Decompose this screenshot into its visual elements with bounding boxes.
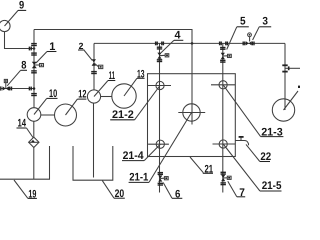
tank 20 xyxy=(73,146,113,180)
wire 11 to 13 xyxy=(101,96,112,98)
label 22 xyxy=(246,144,270,161)
node B junction xyxy=(33,87,36,90)
vessel 13 xyxy=(112,78,137,108)
label 12 xyxy=(77,98,86,100)
vessel 12 xyxy=(55,99,78,126)
flange pair xyxy=(220,60,225,62)
right riser pipe xyxy=(284,43,286,110)
wire from 9 to main riser xyxy=(5,32,34,49)
tee flanges at x159.5 xyxy=(156,42,164,46)
valve 4 xyxy=(157,53,168,59)
svg-text:11: 11 xyxy=(109,70,115,82)
svg-text:19: 19 xyxy=(28,188,36,200)
tee flanges at x222.8 xyxy=(220,42,228,46)
flange pair xyxy=(157,47,162,49)
pipe 11 down to tank 20 xyxy=(93,103,95,177)
label 1 xyxy=(36,52,56,64)
flange pair y71.8 xyxy=(31,71,37,73)
svg-text:21: 21 xyxy=(205,164,214,176)
svg-text:13: 13 xyxy=(137,69,145,81)
svg-text:21-3: 21-3 xyxy=(261,126,283,138)
svg-text:4: 4 xyxy=(175,30,182,42)
svg-text:3: 3 xyxy=(262,15,268,27)
flange pair on branch xyxy=(10,87,12,91)
pump 10 xyxy=(27,98,47,121)
nozzle 21-2 (top-left) xyxy=(148,81,171,89)
drop pipe x=159.5 through scrubber xyxy=(159,43,161,192)
valve 3 xyxy=(243,33,254,46)
svg-text:21-2: 21-2 xyxy=(112,109,134,121)
faucet 22 xyxy=(235,137,248,145)
nozzle 21-5 (bottom-right) xyxy=(213,140,236,148)
label 21-4 xyxy=(122,144,160,160)
svg-text:8: 8 xyxy=(21,60,26,72)
label 10 xyxy=(47,97,58,99)
label 21-2 xyxy=(110,86,160,120)
label 5 xyxy=(227,27,249,50)
label 21 xyxy=(190,157,213,173)
label 8 xyxy=(7,70,27,86)
wire 10 to 12 xyxy=(41,114,55,116)
branch stub xyxy=(285,66,300,70)
label 11 xyxy=(108,80,115,82)
pump 11 xyxy=(87,81,108,104)
label 21-5 xyxy=(223,144,281,191)
label 13 xyxy=(137,77,145,79)
svg-text:6: 6 xyxy=(175,188,180,200)
valve 2 branch xyxy=(93,43,95,90)
flange pair below valve 2 xyxy=(91,72,97,74)
label 19 xyxy=(14,180,37,198)
label 20 xyxy=(102,181,125,199)
svg-text:14: 14 xyxy=(18,118,27,130)
flange pair on right riser xyxy=(282,65,287,71)
valve 7 xyxy=(221,172,232,184)
drain pipe to diamond 14 xyxy=(33,121,35,137)
cropped label mark xyxy=(298,86,300,88)
label 6 xyxy=(163,183,182,199)
valve 6 xyxy=(158,173,169,185)
nozzle 21-1 (center) xyxy=(178,104,205,121)
center drop pipe x=192 xyxy=(191,43,193,124)
second pipe y=43.4 xyxy=(94,42,285,44)
flange pair y44 xyxy=(31,44,37,46)
label 14 xyxy=(17,128,34,138)
label 21-3 xyxy=(223,85,283,137)
svg-text:1: 1 xyxy=(49,41,55,53)
svg-text:22: 22 xyxy=(260,151,271,163)
svg-text:2: 2 xyxy=(79,41,84,51)
flange pair xyxy=(220,48,225,50)
nozzle 21-4 (bottom-left) xyxy=(148,140,169,148)
svg-text:21-4: 21-4 xyxy=(123,150,145,162)
vessel 16 (right) xyxy=(272,91,298,121)
pipe diamond to tank 19 xyxy=(33,147,35,179)
flange pair y54 xyxy=(31,53,37,55)
valve 8 xyxy=(1,79,9,90)
scrubber box 21 xyxy=(148,74,236,157)
valve 5 xyxy=(221,53,232,59)
nozzle 21-3 (top-right) xyxy=(211,81,235,89)
label 9 xyxy=(18,9,26,11)
svg-text:7: 7 xyxy=(239,187,245,199)
svg-text:9: 9 xyxy=(19,0,24,12)
drop pipe x=222.8 through scrubber xyxy=(222,43,224,192)
valve 8 branch wire y=88.5 xyxy=(1,88,35,90)
main vertical pipe x=34 xyxy=(33,30,35,108)
flange pair on wire xyxy=(29,47,31,51)
label 2 xyxy=(78,50,92,61)
node C junction xyxy=(191,42,194,45)
svg-text:20: 20 xyxy=(115,188,125,200)
circle 9 (flowmeter) xyxy=(0,10,18,31)
label 21-1 xyxy=(129,113,192,183)
node A junction xyxy=(33,47,36,50)
tank 19 xyxy=(0,146,50,179)
valve 1 xyxy=(32,62,44,68)
diamond 14 (trap) xyxy=(29,137,39,147)
svg-text:21-1: 21-1 xyxy=(129,172,148,184)
svg-text:21-5: 21-5 xyxy=(262,180,282,192)
svg-text:10: 10 xyxy=(49,88,57,100)
svg-text:12: 12 xyxy=(78,89,86,101)
label 3 xyxy=(253,27,272,40)
flange pair xyxy=(157,60,162,62)
valve 2 xyxy=(92,59,103,68)
label 4 xyxy=(161,40,183,53)
svg-text:5: 5 xyxy=(240,15,246,27)
label 7 xyxy=(228,181,245,197)
flange pair y94.6 xyxy=(31,94,37,96)
top pipe y=29.5 xyxy=(34,30,192,44)
